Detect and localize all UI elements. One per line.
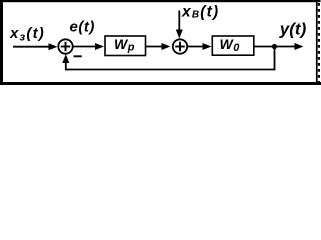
arrowhead up into summer 1 [62, 54, 69, 63]
block Wp [105, 36, 146, 56]
summing junction 1 [58, 39, 72, 53]
node: feedback tap [272, 44, 277, 49]
wire: summer 2 to Wo [188, 46, 208, 48]
arrowhead down into summer 2 [176, 30, 183, 39]
wire: output [254, 46, 299, 48]
arrowhead into Wp [95, 43, 104, 50]
svg-text:e(t): e(t) [70, 19, 95, 36]
wire: feedback down [274, 47, 276, 70]
wire: input to summer 1 [13, 46, 53, 48]
wire: feedback bottom [66, 69, 276, 71]
minus sign (feedback input) [74, 55, 82, 57]
frame [0, 0, 321, 2]
arrowhead into summer 2 [162, 43, 171, 50]
plus sign in summer 2 [175, 46, 185, 48]
plus sign in summer 1 [61, 46, 71, 48]
wire: disturbance down into summer 2 [178, 11, 180, 35]
svg-text:xз(t): xз(t) [9, 25, 45, 44]
svg-text:xВ(t): xВ(t) [181, 4, 219, 21]
wire: Wp to summer 2 [146, 46, 165, 48]
block Wo [212, 36, 254, 55]
output arrowhead [295, 43, 304, 50]
svg-text:y(t): y(t) [279, 20, 307, 39]
wire: summer 1 to Wp [73, 46, 100, 48]
arrowhead into Wo [203, 43, 212, 50]
summing junction 2 [173, 39, 187, 53]
arrowhead into summer 1 [49, 43, 58, 50]
wire: feedback up into summer 1 [65, 58, 67, 70]
dashed right edge strip [318, 3, 320, 85]
